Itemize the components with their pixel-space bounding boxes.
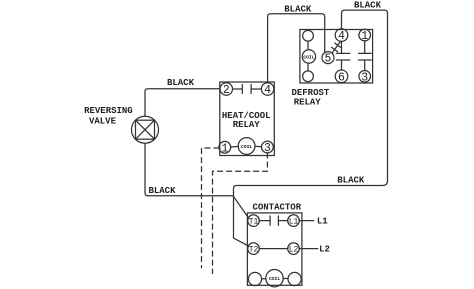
svg-text:COIL: COIL	[303, 55, 315, 61]
svg-text:VALVE: VALVE	[89, 117, 117, 127]
svg-text:T1: T1	[249, 217, 259, 226]
label HEAT/COOL RELAY	[222, 111, 271, 130]
terminal 1	[359, 29, 371, 41]
svg-text:BLACK: BLACK	[148, 186, 176, 196]
reversing valve	[132, 116, 159, 143]
contact 4-6	[336, 41, 350, 70]
coil	[302, 50, 315, 63]
svg-text:BLACK: BLACK	[284, 4, 312, 14]
terminal 6	[335, 70, 348, 83]
svg-text:BLACK: BLACK	[354, 1, 382, 11]
terminal 4	[261, 83, 273, 95]
svg-text:5: 5	[325, 53, 332, 66]
wire T2-L2	[259, 248, 287, 250]
terminal 1	[219, 141, 231, 153]
switch arm tick 2	[335, 43, 341, 47]
svg-text:1: 1	[221, 142, 228, 155]
wire L1 lead	[299, 220, 313, 222]
dashed wire from heat/cool terminal 3	[213, 153, 268, 274]
link top circle to coil	[307, 41, 309, 50]
terminal T1	[248, 215, 260, 227]
label DEFROST RELAY	[291, 88, 329, 108]
coil	[266, 270, 283, 287]
svg-text:4: 4	[264, 84, 271, 97]
svg-text:T2: T2	[249, 245, 259, 254]
contact 1-3	[359, 41, 372, 71]
wire L2 lead	[299, 248, 318, 250]
wire valve bottom to contactor T1	[145, 143, 249, 218]
wire defrost 4 right side down to contactor T2	[234, 10, 388, 246]
svg-text:BLACK: BLACK	[167, 78, 195, 88]
terminal 2	[220, 83, 232, 95]
svg-text:2: 2	[223, 84, 230, 97]
svg-text:RELAY: RELAY	[233, 120, 261, 130]
contact 2-4	[233, 85, 262, 94]
svg-text:3: 3	[361, 71, 368, 84]
pole circle top left	[303, 30, 314, 41]
contact T1-L1	[259, 216, 287, 225]
svg-text:REVERSING: REVERSING	[84, 106, 133, 116]
pole circle bottom left	[303, 71, 314, 82]
wire valve top to heat/cool relay terminal 2	[145, 89, 220, 117]
svg-text:L2: L2	[289, 245, 299, 254]
heat/cool relay U1	[219, 82, 274, 156]
switch arm 5 to 4	[332, 42, 340, 54]
terminal T2	[248, 243, 260, 255]
terminal 5	[322, 52, 334, 64]
terminal 3	[359, 71, 371, 83]
label REVERSING VALVE	[84, 106, 133, 127]
link coil-3	[255, 145, 262, 148]
terminal 3	[262, 141, 274, 153]
link coil to bottom circle	[307, 63, 309, 71]
svg-text:BLACK: BLACK	[337, 176, 365, 186]
svg-text:L1: L1	[317, 217, 328, 227]
dashed wire from heat/cool terminal 1	[202, 148, 219, 268]
terminal 4	[335, 29, 348, 42]
terminal L2	[288, 243, 300, 255]
switch arm tick 1	[332, 47, 338, 51]
svg-text:COIL: COIL	[269, 276, 281, 282]
pole circle bottom left	[248, 272, 261, 285]
svg-text:COIL: COIL	[241, 144, 253, 150]
terminal L1	[288, 215, 300, 227]
link coil-circle	[283, 278, 288, 280]
link 1-coil	[231, 145, 239, 148]
defrost relay U2	[300, 29, 373, 85]
svg-text:L1: L1	[289, 217, 299, 226]
contactor K1	[247, 213, 302, 287]
pole circle bottom right	[288, 272, 301, 285]
svg-text:CONTACTOR: CONTACTOR	[252, 203, 301, 213]
svg-text:DEFROST: DEFROST	[291, 88, 329, 98]
svg-text:6: 6	[338, 71, 345, 84]
wire heat/cool 4 to defrost 5	[268, 14, 325, 83]
svg-text:L2: L2	[319, 245, 330, 255]
coil	[238, 138, 255, 155]
svg-text:RELAY: RELAY	[294, 98, 322, 108]
link circle-coil	[262, 278, 266, 280]
